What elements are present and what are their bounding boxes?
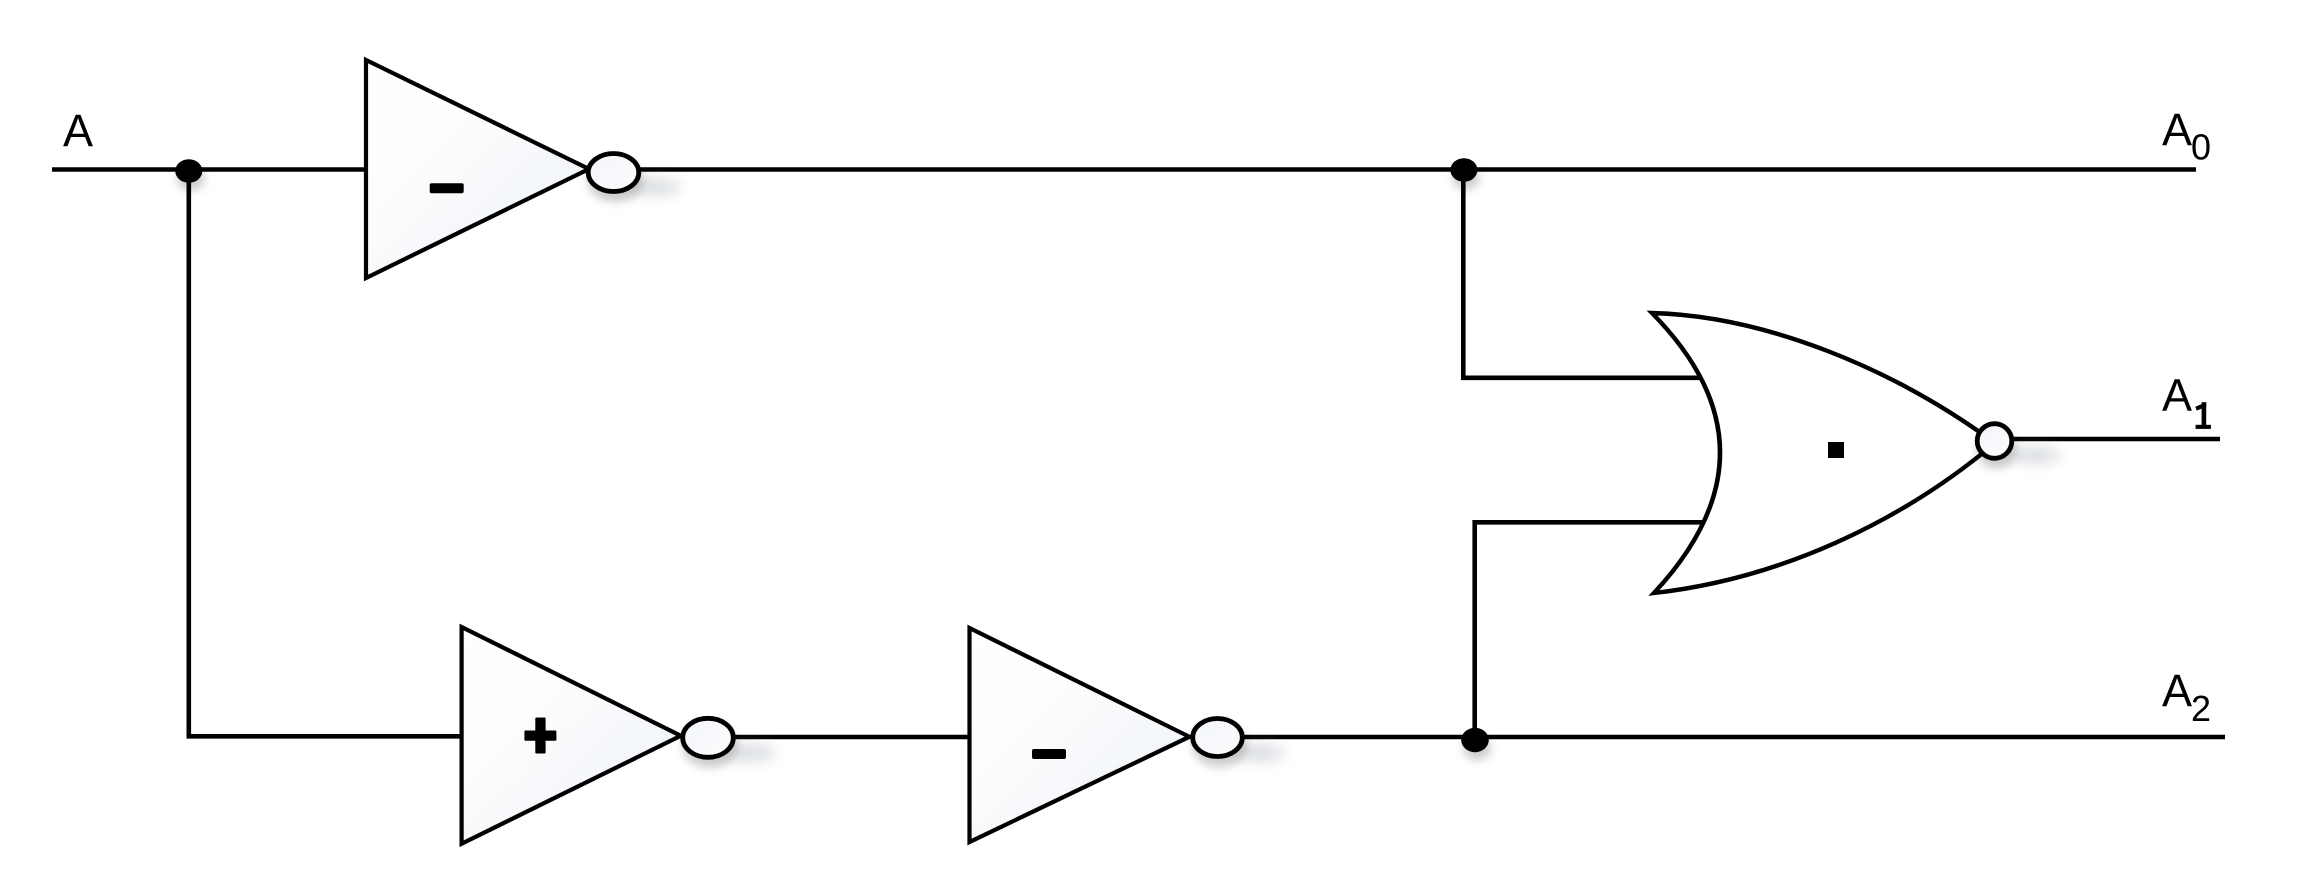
svg-text:0: 0 [2191,127,2211,168]
svg-text:A: A [63,105,93,156]
svg-text:A: A [2162,370,2192,421]
svg-text:2: 2 [2191,688,2211,729]
svg-text:A: A [2162,104,2192,155]
svg-text:A: A [2162,665,2192,716]
